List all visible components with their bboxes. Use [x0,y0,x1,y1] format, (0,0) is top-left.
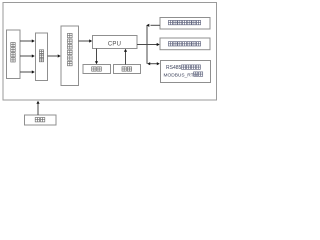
svg-text:MODBUS_RTU: MODBUS_RTU [164,72,198,78]
svg-text:CPU: CPU [108,41,121,47]
svg-text:RS485: RS485 [166,65,182,71]
